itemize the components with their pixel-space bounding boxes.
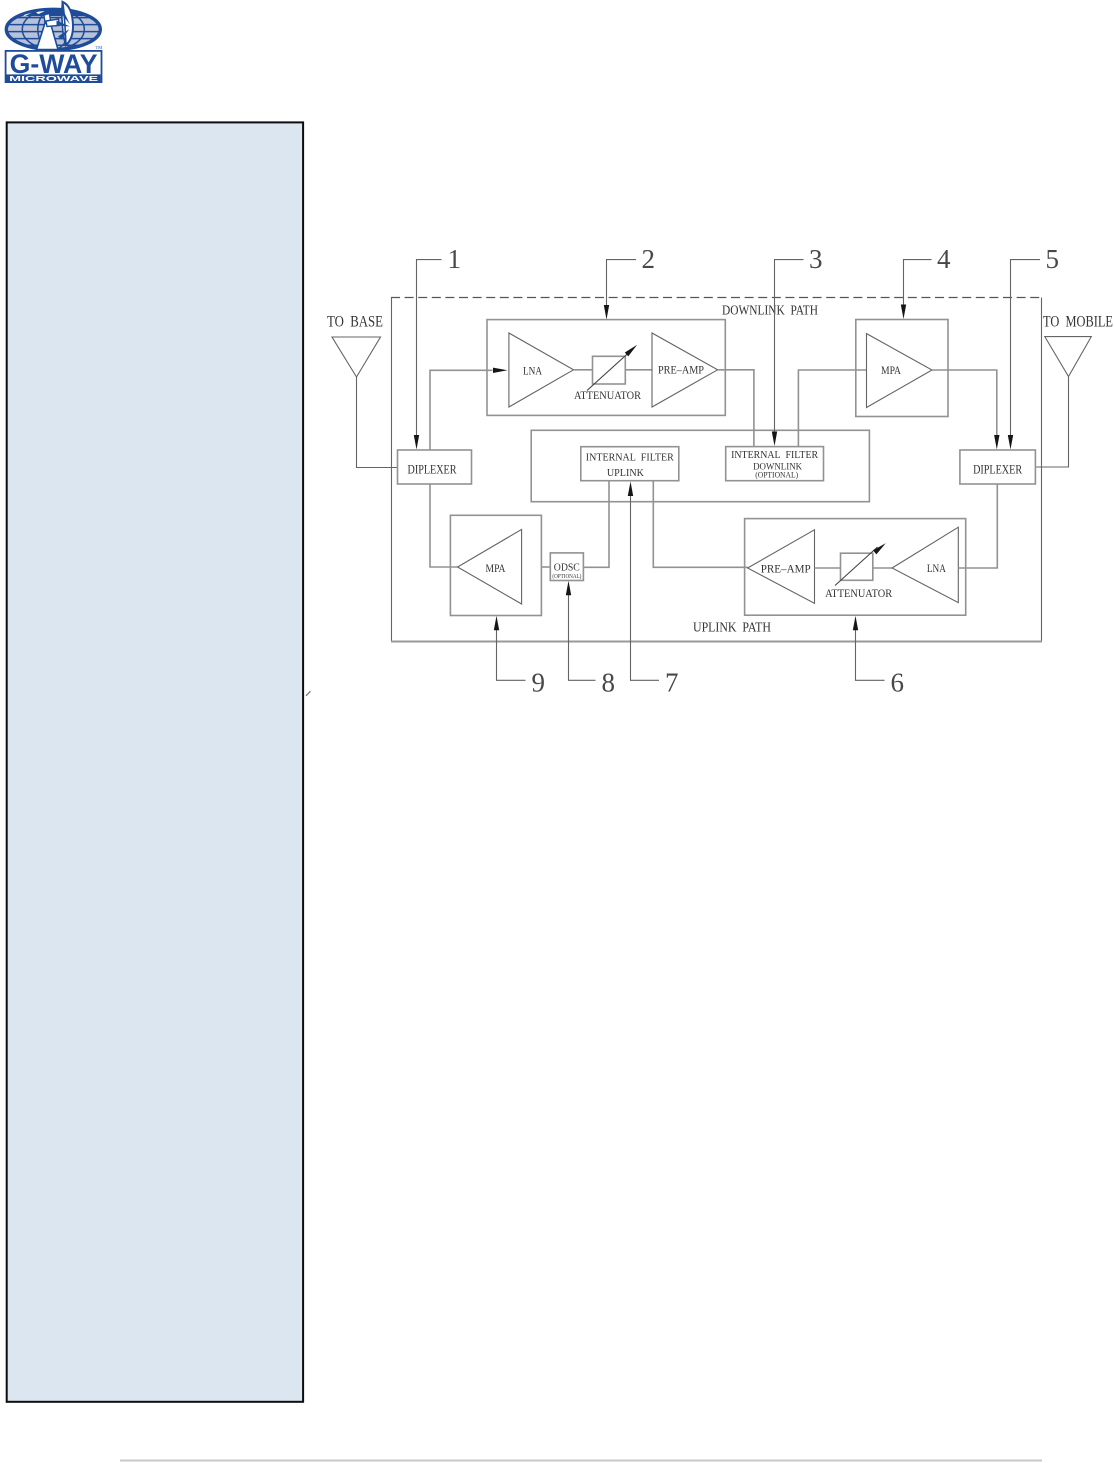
svg-text:DIPLEXER: DIPLEXER [973, 461, 1022, 476]
attenuator uplink [841, 553, 873, 580]
wire filter uplink to ODSC [583, 481, 609, 568]
svg-text:ATTENUATOR: ATTENUATOR [574, 388, 641, 402]
svg-text:TO BASE: TO BASE [327, 313, 383, 330]
amplifier PRE-AMP uplink [748, 530, 815, 604]
wire pre-amp to attenuator uplink [815, 567, 841, 569]
wire diplexer to LNA with arrow [430, 370, 493, 450]
svg-text:LNA: LNA [523, 366, 543, 378]
downlink amplifier box [487, 320, 725, 416]
wire internal filter downlink to MPA [798, 370, 866, 447]
callout 8 [569, 592, 596, 680]
blue side panel [7, 122, 303, 1401]
svg-text:UPLINK PATH: UPLINK PATH [693, 619, 771, 634]
wire attenuator to LNA uplink [873, 567, 892, 569]
callout 4 [904, 260, 932, 307]
svg-text:INTERNAL FILTER: INTERNAL FILTER [731, 450, 818, 461]
outer enclosure bottom edge [391, 641, 1042, 643]
svg-text:DOWNLINK PATH: DOWNLINK PATH [722, 302, 818, 317]
svg-text:2: 2 [642, 244, 656, 274]
callout 5 [1011, 260, 1041, 438]
internal filter downlink box [726, 447, 824, 481]
callout 9 [497, 627, 526, 680]
outer enclosure right edge [1041, 298, 1043, 642]
tick mark [306, 691, 311, 696]
internal filter uplink box [581, 447, 679, 481]
svg-text:4: 4 [937, 244, 951, 274]
logo G-WAY Microwave [6, 2, 103, 83]
svg-text:7: 7 [665, 668, 679, 698]
svg-text:1: 1 [448, 244, 462, 274]
wire filter uplink to pre-amp uplink [653, 481, 747, 568]
attenuator downlink [593, 356, 626, 384]
callout 3 [775, 260, 804, 434]
antenna mobile [1045, 337, 1092, 377]
ODSC box [550, 553, 583, 581]
outer enclosure left edge [391, 298, 393, 642]
wire LNA to diplexer right [958, 484, 997, 568]
diplexer left [398, 450, 472, 484]
svg-text:TO MOBILE: TO MOBILE [1043, 314, 1113, 331]
internal filter enclosure box [531, 430, 869, 501]
callout 6 [856, 627, 885, 680]
amplifier PRE-AMP downlink [652, 333, 718, 407]
antenna base [332, 337, 381, 377]
uplink amplifier box [745, 519, 966, 616]
callout 7 [631, 493, 660, 680]
amplifier LNA downlink [509, 333, 574, 407]
wire LNA to attenuator [574, 369, 593, 371]
svg-text:ODSC: ODSC [554, 562, 580, 574]
antenna mobile stem wire [1035, 377, 1068, 468]
svg-text:MPA: MPA [486, 563, 507, 575]
MPA uplink box [450, 515, 541, 615]
svg-text:ATTENUATOR: ATTENUATOR [825, 586, 892, 600]
callout 2 [607, 260, 637, 308]
wire attenuator to pre-amp [625, 369, 652, 371]
svg-text:MPA: MPA [881, 365, 902, 377]
diplexer right [960, 450, 1036, 484]
svg-text:INTERNAL FILTER: INTERNAL FILTER [586, 453, 674, 464]
svg-text:DIPLEXER: DIPLEXER [408, 461, 457, 476]
amplifier LNA uplink [892, 527, 958, 602]
callout 1 [417, 260, 442, 438]
wire diplexer left to MPA uplink [430, 484, 458, 567]
wire pre-amp to internal filter downlink [718, 370, 754, 447]
wire MPA to diplexer right with arrow [932, 370, 997, 437]
footer rule [120, 1460, 1042, 1462]
svg-text:6: 6 [891, 668, 905, 698]
svg-text:PRE–AMP: PRE–AMP [761, 564, 811, 576]
svg-text:5: 5 [1046, 244, 1060, 274]
amplifier MPA downlink [867, 334, 933, 408]
svg-text:PRE–AMP: PRE–AMP [658, 365, 704, 377]
outer enclosure box dashed top [391, 297, 1042, 299]
wire MPA box to ODSC [541, 566, 550, 568]
svg-text:3: 3 [809, 244, 823, 274]
svg-text:MICROWAVE: MICROWAVE [9, 74, 98, 83]
MPA downlink box [856, 320, 948, 417]
svg-text:UPLINK: UPLINK [607, 468, 644, 479]
antenna base stem wire [357, 377, 398, 468]
svg-text:LNA: LNA [927, 563, 947, 575]
amplifier MPA uplink [458, 529, 522, 604]
svg-text:(OPTIONAL): (OPTIONAL) [552, 573, 581, 580]
svg-text:8: 8 [602, 668, 616, 698]
svg-text:(OPTIONAL): (OPTIONAL) [755, 471, 798, 480]
svg-text:9: 9 [532, 668, 546, 698]
